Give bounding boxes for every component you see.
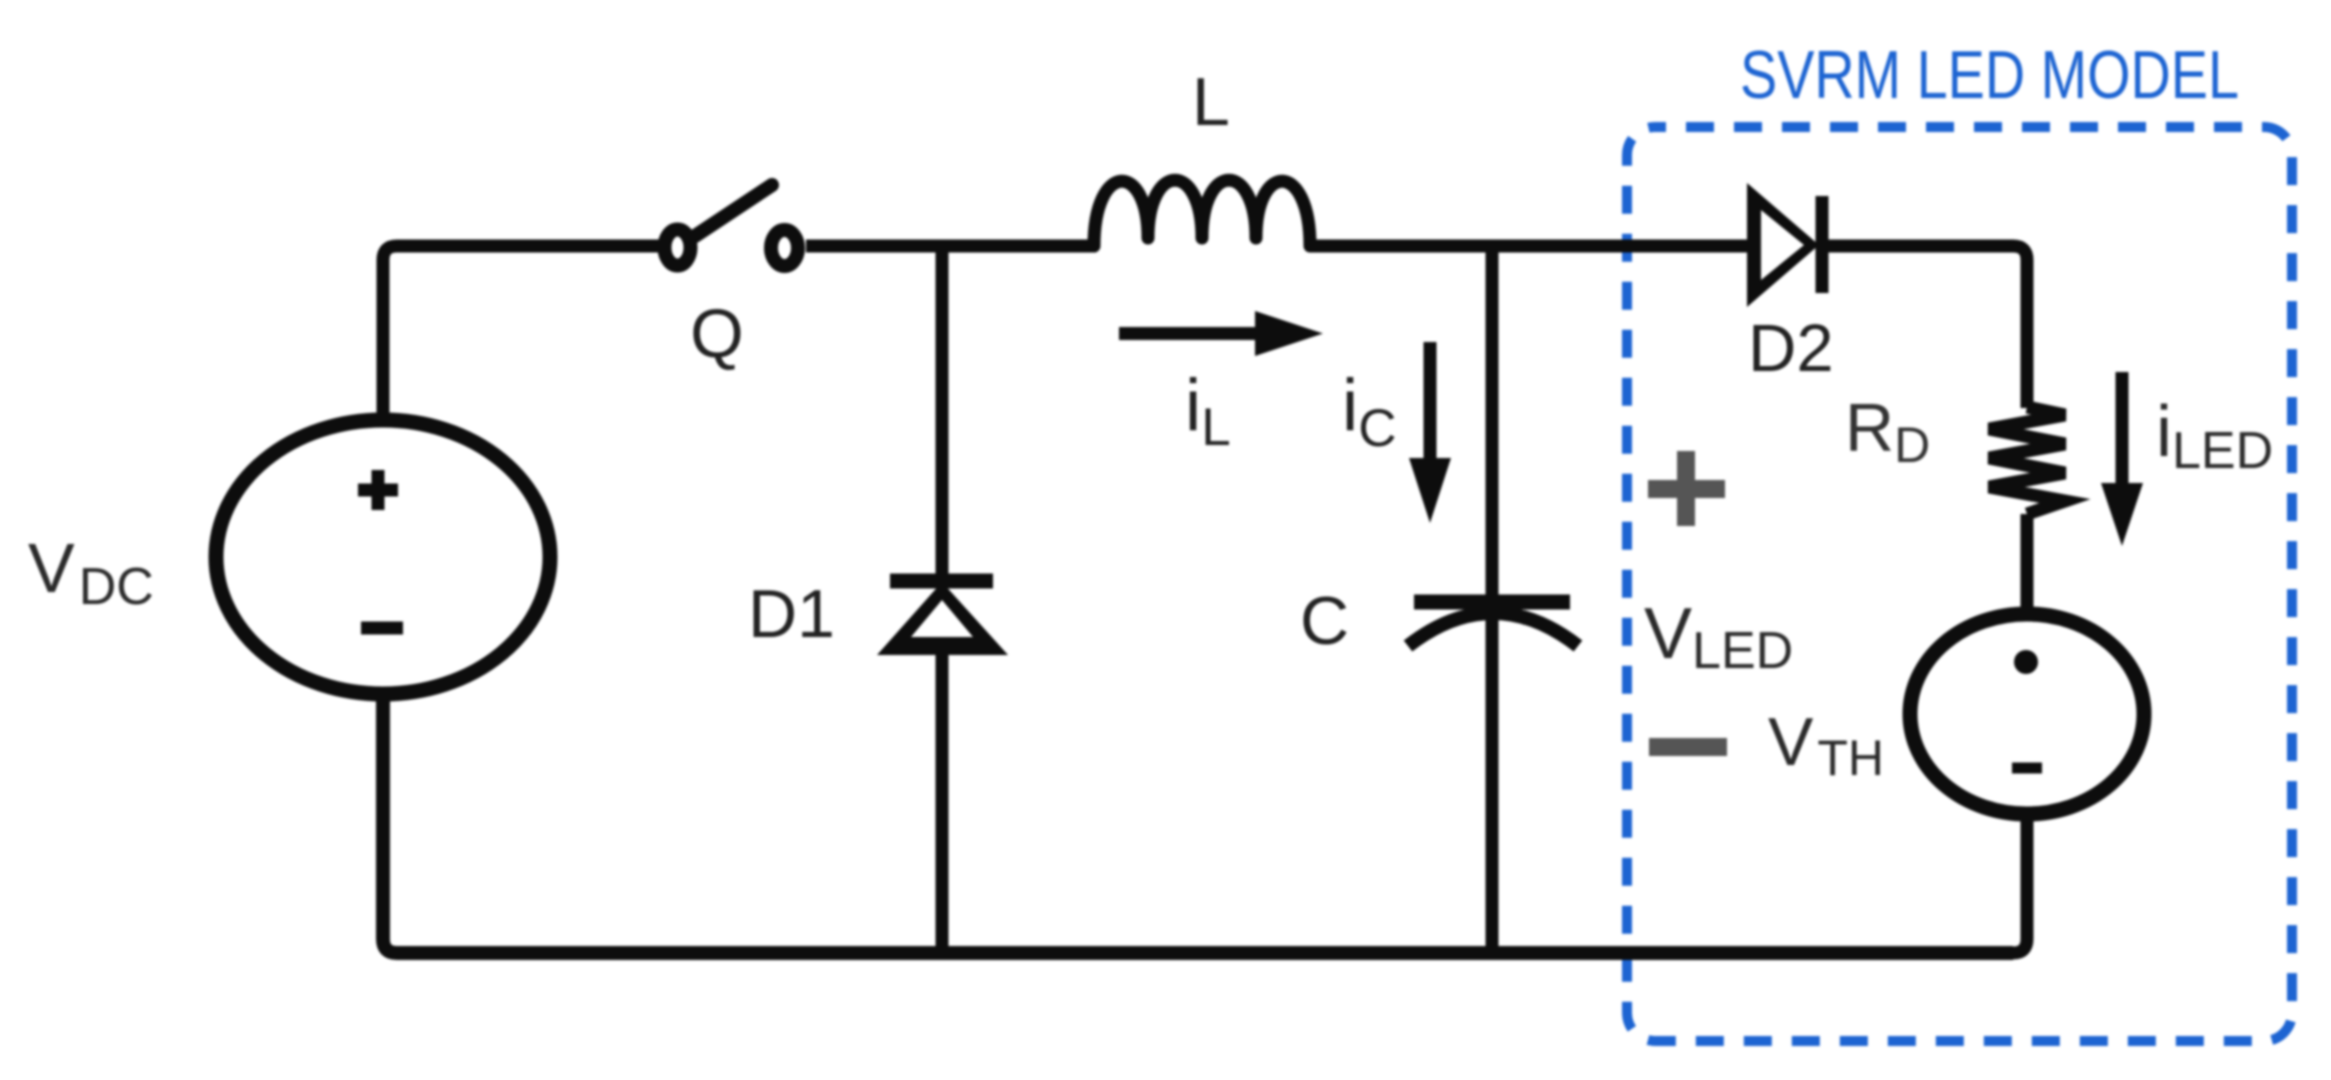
svg-text:Q: Q xyxy=(690,295,744,372)
svg-text:L: L xyxy=(1192,64,1230,140)
svg-text:SVRM LED MODEL: SVRM LED MODEL xyxy=(1740,37,2239,113)
svg-text:C: C xyxy=(1300,583,1349,659)
svg-text:D2: D2 xyxy=(1748,311,1834,386)
svg-text:D1: D1 xyxy=(748,576,835,652)
